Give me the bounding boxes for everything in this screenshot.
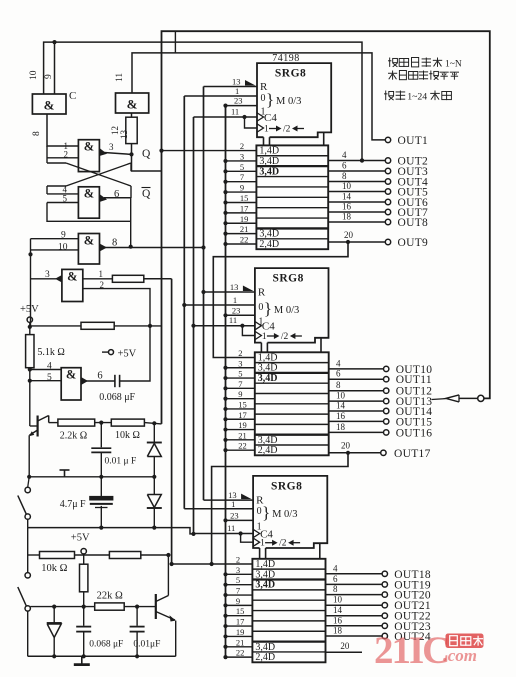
svg-text:21IC: 21IC xyxy=(374,629,448,672)
svg-text:}: } xyxy=(266,90,274,109)
label 10 xyxy=(29,70,39,80)
svg-text:5: 5 xyxy=(236,575,240,585)
diode D3 xyxy=(47,607,62,657)
svg-text:1,4D: 1,4D xyxy=(259,146,279,157)
svg-text:5: 5 xyxy=(238,369,242,379)
svg-text:OUT8: OUT8 xyxy=(398,217,429,229)
svg-text:&: & xyxy=(84,187,94,201)
svg-text:3,4D: 3,4D xyxy=(255,569,275,580)
IC1 label 2,4D xyxy=(259,239,279,250)
svg-text:3: 3 xyxy=(238,358,242,368)
svg-text:1: 1 xyxy=(233,295,237,305)
svg-text:SRG8: SRG8 xyxy=(271,480,302,492)
IC3 label pin 19 xyxy=(236,627,245,637)
svg-text:18: 18 xyxy=(342,212,352,222)
wire +5V row with resistor xyxy=(28,322,162,329)
svg-text:8: 8 xyxy=(32,131,42,136)
IC1 data pin 3 wire xyxy=(223,159,256,163)
IC2 data row line 1 xyxy=(255,362,329,364)
IC1 pin23 wire xyxy=(223,104,257,108)
IC2 data pin 9 wire xyxy=(223,397,254,401)
svg-text:C4: C4 xyxy=(264,112,277,124)
IC3 label pin 5 xyxy=(236,575,240,585)
svg-text:OUT16: OUT16 xyxy=(396,427,433,439)
IC3 label 1,4D xyxy=(255,559,275,570)
terminal OUT16 xyxy=(329,422,433,440)
svg-text:13: 13 xyxy=(230,282,239,292)
svg-text:&: & xyxy=(67,270,77,284)
svg-text:3,4D: 3,4D xyxy=(259,229,279,240)
IC1 data pin 15 wire xyxy=(223,200,256,204)
IC3 div2 label xyxy=(260,539,300,549)
terminal OUT2 xyxy=(328,150,428,168)
IC3 data row line 4 xyxy=(252,599,325,601)
svg-text:7: 7 xyxy=(236,586,240,596)
svg-text:C4: C4 xyxy=(262,321,275,333)
svg-text:&: & xyxy=(66,368,76,382)
IC2 pin23 wire xyxy=(223,313,255,317)
svg-text:1: 1 xyxy=(99,269,104,279)
wire row to column xyxy=(144,421,161,425)
resistor Rv bottom xyxy=(80,559,88,607)
svg-text:M 0/3: M 0/3 xyxy=(272,509,297,520)
svg-text:9: 9 xyxy=(236,596,240,606)
capacitor 0.068uF bottom xyxy=(76,607,91,657)
IC3 data pin 9 wire xyxy=(223,603,252,607)
svg-text:17: 17 xyxy=(238,410,247,420)
svg-text:}: } xyxy=(264,299,272,318)
IC1 label pin 17 xyxy=(240,203,249,213)
svg-text:5: 5 xyxy=(63,194,68,204)
svg-text:1: 1 xyxy=(235,86,239,96)
IC2 label 1 xyxy=(233,295,237,305)
svg-text:+5V: +5V xyxy=(20,304,39,315)
IC3 label 2,4D xyxy=(255,652,275,663)
IC2 data pin 17 wire xyxy=(223,417,254,421)
svg-text:2: 2 xyxy=(64,150,69,160)
wire gate3 out 3 xyxy=(99,148,131,156)
terminal OUT13 xyxy=(329,391,433,409)
svg-text:10k Ω: 10k Ω xyxy=(41,563,67,574)
label 13v xyxy=(119,130,129,140)
svg-text:Q: Q xyxy=(142,188,151,200)
IC1 R input wedge xyxy=(245,80,268,93)
IC2 mode 1 xyxy=(258,316,263,327)
svg-text:19: 19 xyxy=(236,627,245,637)
IC2 data row line 2 xyxy=(255,372,329,374)
rail +5V bottom xyxy=(28,552,171,559)
svg-text:2,4D: 2,4D xyxy=(255,652,275,663)
IC3 mode 0 xyxy=(257,506,262,517)
wire top net A (gate C pins 10/9 to OUT2 column) xyxy=(44,42,365,162)
IC3 data pin 22 wire xyxy=(223,655,252,659)
terminal OUT14 xyxy=(329,401,433,419)
svg-text:1: 1 xyxy=(231,499,235,509)
label 1 gate3 xyxy=(64,141,69,151)
resistor 5.1k xyxy=(26,327,34,426)
IC2 tab right xyxy=(315,338,321,353)
svg-text:7: 7 xyxy=(240,172,244,182)
IC1 tab left xyxy=(264,137,270,145)
label 22k xyxy=(97,591,123,602)
IC2 label 3,4D a xyxy=(258,363,278,374)
IC1 data box xyxy=(256,145,328,249)
label 5 gate4 xyxy=(63,194,68,204)
svg-text:3,4D: 3,4D xyxy=(259,166,279,177)
IC3 data row line 6 xyxy=(252,620,325,622)
resistor 10k upper xyxy=(111,419,144,426)
terminal OUT9 xyxy=(328,230,428,249)
IC3 SRG8 control box outline xyxy=(253,476,327,548)
nand gate C xyxy=(32,94,66,114)
IC2 tab left xyxy=(261,343,267,353)
svg-text:13: 13 xyxy=(232,77,241,87)
svg-text:3: 3 xyxy=(45,270,50,280)
svg-text:16: 16 xyxy=(336,411,346,421)
label 6 gate7 xyxy=(97,371,102,382)
label 9 gate5 xyxy=(61,231,66,241)
svg-text:3: 3 xyxy=(236,565,240,575)
svg-text:2,4D: 2,4D xyxy=(258,445,278,456)
svg-text:74198: 74198 xyxy=(272,53,300,64)
IC2 label 1,4D xyxy=(258,352,278,363)
tick contact xyxy=(60,470,70,477)
terminal OUT8 xyxy=(328,212,428,230)
terminal OUT11 xyxy=(329,369,432,387)
svg-text:9: 9 xyxy=(240,183,244,193)
svg-text:3: 3 xyxy=(240,151,244,161)
svg-text:6: 6 xyxy=(97,371,102,382)
svg-text:&: & xyxy=(84,234,94,248)
svg-text:8: 8 xyxy=(342,171,347,181)
IC3 label pin 21 xyxy=(236,637,245,647)
IC2 label pin 9 xyxy=(238,389,242,399)
diode D1 xyxy=(147,423,162,477)
label 8 (rotated) xyxy=(32,131,42,136)
IC3 data row line 3 xyxy=(252,589,325,591)
mid rail xyxy=(27,475,156,479)
IC1 data row line 3 xyxy=(256,176,328,178)
IC3 data row line 2 xyxy=(252,578,325,580)
IC2 label pin 15 xyxy=(238,399,247,409)
IC1 data row line 6 xyxy=(256,207,328,209)
svg-text:4.7μ F: 4.7μ F xyxy=(60,499,86,510)
terminal OUT23 xyxy=(326,615,431,633)
label 12 xyxy=(110,126,120,135)
IC1 data row line 5 xyxy=(256,196,328,198)
IC2 pin11 wire xyxy=(194,324,255,328)
IC3 data row line 9 xyxy=(252,651,325,653)
terminal OUT20 xyxy=(326,584,431,602)
IC1 label pin 19 xyxy=(240,214,249,224)
terminal OUT10 xyxy=(329,358,433,376)
feedback arrow into OUT13 xyxy=(432,395,484,402)
svg-text:19: 19 xyxy=(240,214,249,224)
label 0.01uF bottom xyxy=(133,640,160,650)
capacitor 4.7uF electrolytic xyxy=(90,477,113,528)
label 11 xyxy=(115,73,125,82)
IC2 label pin 17 xyxy=(238,410,247,420)
svg-text:OUT11: OUT11 xyxy=(396,374,432,386)
IC3 label pin 17 xyxy=(236,617,245,627)
svg-text:1: 1 xyxy=(264,125,269,135)
svg-text:14: 14 xyxy=(342,192,352,202)
IC2 label pin 3 xyxy=(238,358,242,368)
IC3 pin20 stub xyxy=(326,641,363,652)
IC3 pin11 wire xyxy=(194,531,254,535)
label 10k upper xyxy=(115,430,140,441)
IC3 div2 wire xyxy=(241,534,260,547)
IC3 label pin 7 xyxy=(236,586,240,596)
svg-text:C: C xyxy=(69,90,76,102)
label 2 gate3 xyxy=(64,150,69,160)
wire gate5 in10 xyxy=(31,249,79,251)
terminal OUT3 xyxy=(328,161,428,179)
terminal OUT7 xyxy=(328,202,428,220)
wire top bus (to OUT13 feedback arrow) xyxy=(162,31,490,424)
IC1 serial input pin2 wire xyxy=(159,149,256,153)
IC3 data row line 5 xyxy=(252,610,325,612)
IC1 label 74198 xyxy=(272,53,300,64)
svg-text:+5V: +5V xyxy=(71,533,90,544)
svg-text:2: 2 xyxy=(240,141,244,151)
IC1 SRG8 control box outline xyxy=(257,63,331,137)
IC2 data row line 6 xyxy=(255,413,329,415)
svg-text:15: 15 xyxy=(240,193,249,203)
IC2 data box xyxy=(255,352,329,455)
svg-text:0: 0 xyxy=(261,93,266,104)
svg-text:13: 13 xyxy=(119,130,129,140)
terminal OUT5 xyxy=(328,181,428,199)
svg-text:3,4D: 3,4D xyxy=(255,580,275,591)
svg-text:SRG8: SRG8 xyxy=(272,273,303,285)
svg-text:20: 20 xyxy=(341,441,351,451)
svg-text:2: 2 xyxy=(236,554,240,564)
wire 8 gate C out to gate3 in1 xyxy=(47,114,78,146)
IC3 label 13 xyxy=(228,490,237,500)
IC3 data pin 15 wire xyxy=(223,614,252,618)
svg-text:0.068 μF: 0.068 μF xyxy=(89,640,123,650)
transistor Q1 xyxy=(29,416,49,477)
capacitor 0.01uF mid xyxy=(91,423,111,477)
svg-text:22: 22 xyxy=(240,235,249,245)
IC2 label pin 22 xyxy=(238,441,247,451)
svg-text:21: 21 xyxy=(236,637,245,647)
IC3 label pin 15 xyxy=(236,606,245,616)
IC1 data row line 9 xyxy=(256,238,328,240)
IC2 div2 label xyxy=(262,332,302,342)
svg-text:17: 17 xyxy=(240,203,249,213)
svg-text:5.1k Ω: 5.1k Ω xyxy=(37,347,64,358)
IC2 data row line 3 xyxy=(255,382,329,384)
wire gate7 out6 xyxy=(81,377,115,385)
watermark 21IC xyxy=(374,629,448,672)
IC3 data pin 21 wire xyxy=(223,645,252,649)
wire net B (gate 11 to OUT1) xyxy=(132,53,385,140)
IC2 label pin 19 xyxy=(238,420,247,430)
IC2 pin1 wire xyxy=(184,304,255,306)
svg-text:/2: /2 xyxy=(281,332,289,342)
bus pin1 column xyxy=(182,96,186,509)
IC1 data row line 4 xyxy=(256,186,328,188)
switch S1 xyxy=(18,477,31,528)
terminal +5V upper xyxy=(20,304,39,327)
svg-text:SRG8: SRG8 xyxy=(275,68,306,80)
wire gate5 out 8 xyxy=(100,244,206,252)
IC1 label pin 7 xyxy=(240,172,244,182)
IC3 label 1 xyxy=(231,499,235,509)
wire gate4 wraparound xyxy=(47,198,131,247)
nand gate U4 xyxy=(78,187,99,219)
IC1 label 3,4D a xyxy=(259,156,279,167)
wire gate6 pin2 xyxy=(83,289,150,326)
bottom rail xyxy=(28,654,176,658)
IC1 data pin 5 wire xyxy=(223,169,256,173)
IC3 label pin 2 xyxy=(236,554,240,564)
transistor Q2 xyxy=(156,555,176,656)
IC3 label pin 3 xyxy=(236,565,240,575)
IC2 label 2,4D xyxy=(258,445,278,456)
label 2.2k xyxy=(60,431,87,442)
IC2 data row line 8 xyxy=(255,434,329,436)
IC1 mode brace M 0/3 xyxy=(266,90,301,109)
svg-text:9: 9 xyxy=(44,74,54,79)
IC2 label 23 xyxy=(232,305,241,315)
IC3 pin13 wire xyxy=(204,499,254,501)
IC3 mode 1 xyxy=(257,521,262,532)
IC2 data pin 7 wire xyxy=(223,386,254,390)
IC3 pin23 wire xyxy=(223,518,253,522)
terminal +5V floating xyxy=(102,349,137,360)
capacitor 0.01uF bottom xyxy=(130,607,145,657)
cross-coupling bowtie xyxy=(47,146,131,198)
IC2 mode brace M 0/3 xyxy=(264,299,299,318)
IC1 label 3,4D b xyxy=(259,166,279,177)
terminal OUT22 xyxy=(326,605,431,623)
label 8 gate5 xyxy=(112,238,117,249)
svg-text:0: 0 xyxy=(258,302,263,313)
IC1 data pin 22 wire xyxy=(223,242,256,246)
IC1 label 11 xyxy=(231,107,239,117)
wire gate7 in4 xyxy=(28,367,62,371)
IC1 data row line 7 xyxy=(256,217,328,219)
IC3 data pin 3 wire xyxy=(223,572,252,576)
svg-text:8: 8 xyxy=(336,380,341,390)
watermark dianziwang red box xyxy=(446,634,484,649)
nand gate U5 xyxy=(78,234,99,265)
svg-text:.com: .com xyxy=(443,645,477,666)
wire left column gates xyxy=(28,239,32,327)
terminal OUT4 xyxy=(328,171,428,189)
wire 9 from top net to gate C xyxy=(52,40,56,94)
wire gate6 pin1 with resistor xyxy=(83,275,172,282)
annotation line 2: sequential high level xyxy=(388,71,459,80)
wire gate6 out3 xyxy=(31,275,62,283)
svg-text:4: 4 xyxy=(336,358,341,368)
svg-text:10: 10 xyxy=(336,391,346,401)
terminal OUT19 xyxy=(326,574,431,592)
capacitor 0.068uF mid xyxy=(115,326,150,387)
svg-text:11: 11 xyxy=(115,73,125,82)
IC1 pin13 wire xyxy=(204,86,258,88)
IC1 label 13 xyxy=(232,77,241,87)
label C xyxy=(69,90,76,102)
annotation line 3: set 1~24 optional xyxy=(384,91,451,103)
svg-text:3,4D: 3,4D xyxy=(258,373,278,384)
svg-text:9: 9 xyxy=(61,231,66,241)
terminal OUT21 xyxy=(326,595,431,613)
svg-text:5: 5 xyxy=(240,162,244,172)
IC1 mode 1 xyxy=(261,107,266,118)
IC2 data row line 4 xyxy=(255,393,329,395)
IC2 label pin 5 xyxy=(238,369,242,379)
svg-text:1: 1 xyxy=(262,332,267,342)
wire gate3 in2 xyxy=(47,157,78,159)
IC3 tab right xyxy=(314,543,320,559)
svg-text:22: 22 xyxy=(238,441,247,451)
svg-text:0.068 μF: 0.068 μF xyxy=(99,392,135,403)
IC3 data row line 7 xyxy=(252,630,325,632)
svg-text:17: 17 xyxy=(236,617,245,627)
label 6 gate4 xyxy=(114,189,119,200)
svg-text:20: 20 xyxy=(344,230,354,240)
svg-text:19: 19 xyxy=(238,420,247,430)
bus cascade2 xyxy=(210,453,349,566)
IC1 data row line 2 xyxy=(256,165,328,167)
svg-text:15: 15 xyxy=(236,606,245,616)
svg-text:1: 1 xyxy=(260,539,265,549)
IC2 data pin 5 wire xyxy=(223,376,254,380)
bus diode column top wire xyxy=(153,423,155,442)
IC2 data pin 3 wire xyxy=(223,366,254,370)
svg-text:&: & xyxy=(84,140,94,154)
svg-text:4: 4 xyxy=(47,362,52,372)
IC2 div2 wire xyxy=(242,326,261,340)
svg-text:6: 6 xyxy=(114,189,119,200)
IC2 data row line 7 xyxy=(255,423,329,425)
annotation line 1: shift register 1~N xyxy=(388,58,462,70)
IC2 data pin 19 wire xyxy=(223,427,254,431)
svg-text:2: 2 xyxy=(100,280,105,290)
svg-text:0: 0 xyxy=(257,506,262,517)
wire gate4 in4 xyxy=(47,193,78,195)
svg-text:10: 10 xyxy=(58,243,68,253)
IC2 C4 clock wedge xyxy=(254,321,275,333)
resistor R12/13 vertical below U2 xyxy=(126,113,137,154)
IC3 data pin 19 wire xyxy=(223,634,252,638)
terminal OUT18 xyxy=(326,563,431,581)
ground xyxy=(74,656,90,664)
svg-text:+5V: +5V xyxy=(118,349,137,360)
node collector row mid xyxy=(95,421,112,425)
IC1 mode 0 xyxy=(261,93,266,104)
terminal OUT1 xyxy=(385,135,428,147)
label 4 gate7 xyxy=(47,362,52,372)
IC2 data row line 5 xyxy=(255,403,329,405)
switch S2 xyxy=(18,528,31,657)
svg-text:16: 16 xyxy=(333,615,343,625)
IC2 SRG8 control box outline xyxy=(255,268,329,343)
wire gate5 in9 xyxy=(31,238,79,240)
IC1 data pin 21 wire xyxy=(223,232,256,236)
svg-text:20: 20 xyxy=(340,641,350,651)
svg-text:2,4D: 2,4D xyxy=(259,239,279,250)
svg-text:23: 23 xyxy=(230,510,239,520)
label 3 gate3 xyxy=(109,142,114,152)
svg-text:1,4D: 1,4D xyxy=(255,559,275,570)
watermark .com xyxy=(443,645,477,666)
svg-text:0.01 μ F: 0.01 μ F xyxy=(105,457,137,467)
